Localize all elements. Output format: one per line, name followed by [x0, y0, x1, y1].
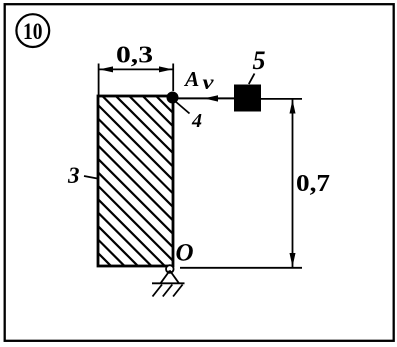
- svg-text:v: v: [203, 72, 215, 94]
- rope wire from A to load 5: [178, 97, 235, 99]
- svg-text:O: O: [176, 240, 194, 267]
- leader line for 5: [249, 74, 255, 85]
- dimension 0,7 top arrowhead: [290, 100, 296, 114]
- dimension 0,7 bottom arrowhead: [290, 253, 296, 267]
- svg-text:3: 3: [67, 163, 80, 188]
- svg-text:A: A: [183, 67, 199, 91]
- svg-text:0,7: 0,7: [296, 170, 330, 197]
- variant number circle 10: [16, 14, 49, 47]
- dimension 0,3 line: [99, 68, 174, 70]
- leader line for 4: [176, 102, 190, 114]
- ground line: [152, 282, 185, 284]
- dimension 0,7 line: [292, 100, 294, 268]
- leader line for 3: [84, 176, 98, 179]
- svg-text:10: 10: [23, 19, 43, 45]
- ground hatch stroke 3: [173, 285, 183, 297]
- plate 3 (hatched rectangle): [0, 96, 350, 276]
- dimension 0,3 extension line left: [98, 64, 100, 96]
- bottom reference wire from O: [180, 267, 302, 269]
- ground hatch stroke 1: [153, 285, 163, 297]
- dimension 0,3 right arrowhead: [159, 66, 173, 72]
- dimension 0,3 extension line right: [172, 64, 174, 92]
- velocity arrowhead on rope: [204, 95, 218, 101]
- pivot support triangle: [161, 271, 180, 284]
- wire from load 5 to dimension corner: [261, 98, 302, 100]
- svg-text:4: 4: [191, 110, 202, 132]
- load 5 (black square): [234, 85, 261, 112]
- node A (pin joint dot): [167, 92, 179, 104]
- ground hatch stroke 2: [163, 285, 173, 297]
- dimension 0,3 left arrowhead: [99, 66, 113, 72]
- pivot pin circle at O: [166, 265, 174, 273]
- svg-text:5: 5: [253, 46, 266, 75]
- svg-text:0,3: 0,3: [116, 43, 153, 69]
